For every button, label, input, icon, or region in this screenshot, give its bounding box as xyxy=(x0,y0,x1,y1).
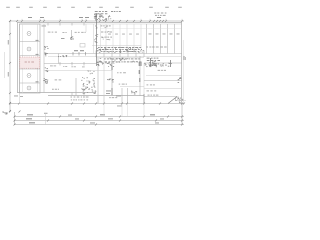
short line y100 right xyxy=(177,100,186,102)
dark cluster x96-104 y60 xyxy=(97,61,104,66)
speckled area (stairs) xyxy=(81,77,96,94)
right wing label 2 xyxy=(147,90,157,93)
line y70 x96-112 xyxy=(96,70,112,72)
chain connector x45 xyxy=(45,113,47,125)
dark wall x96 central xyxy=(96,13,98,66)
inner vertical left of column xyxy=(22,24,24,93)
chain ticks xyxy=(14,116,16,118)
extension x19 bottom xyxy=(19,93,21,104)
cluster right-mid dark xyxy=(144,61,156,66)
room label A xyxy=(48,31,57,34)
wall x58 corridor xyxy=(58,54,60,64)
cluster mid dark xyxy=(105,63,114,67)
right room labels row xyxy=(146,46,167,49)
corridor bottom wall left xyxy=(44,63,96,65)
left room column outline xyxy=(20,24,41,93)
far-left extension line xyxy=(4,52,6,78)
top dimension numbers row xyxy=(6,6,10,9)
left bottom ticks xyxy=(9,111,11,113)
extension dashes above chain xyxy=(21,19,23,21)
corridor top wall xyxy=(44,53,182,55)
interior line y86 right xyxy=(120,86,144,88)
bottom-right dark cluster xyxy=(175,97,184,104)
cell divider 3 xyxy=(20,68,41,70)
small mark 1 xyxy=(61,37,65,40)
bottom texts mid xyxy=(109,96,117,99)
wall x127 xyxy=(127,88,129,104)
text under y63 line 2 xyxy=(63,65,67,68)
faint outer right line xyxy=(182,40,184,104)
right wing boundary x144 xyxy=(143,63,145,97)
wall x76 xyxy=(75,78,77,96)
small mark 2 xyxy=(71,38,74,41)
dark segment x112 low xyxy=(111,88,113,95)
right wing wall y80 xyxy=(144,80,182,82)
dark marks x110 y80 xyxy=(107,79,114,83)
annotation cluster top-middle xyxy=(95,11,108,14)
secondary dim numbers above chain xyxy=(28,16,32,19)
central annotation band row2 xyxy=(101,50,139,53)
door swing bottom right xyxy=(168,97,177,104)
dark segment x144 low xyxy=(143,94,145,103)
text under y63 line xyxy=(50,65,56,68)
outer wall bottom-middle segment xyxy=(48,95,144,97)
faint line y28 xyxy=(100,28,181,30)
small fixture box xyxy=(80,44,85,48)
wall x72 upper xyxy=(71,30,73,37)
wall x141 upper xyxy=(140,24,142,54)
wall x86 upper xyxy=(85,24,87,32)
label x117 y72 xyxy=(117,71,126,74)
dark end of wall x71 xyxy=(70,37,73,40)
bottom chain 1 xyxy=(14,116,184,118)
bottom texts right xyxy=(148,94,159,97)
corridor bottom wall mid xyxy=(96,57,144,59)
dark cluster x44-48 y68 xyxy=(45,68,49,73)
marks below corridor left xyxy=(58,55,67,57)
annotation cluster upper-middle xyxy=(100,26,112,38)
central speckles below corridor xyxy=(100,58,138,63)
text x116 y95 xyxy=(116,95,121,98)
wall x93 upper xyxy=(93,24,95,54)
central annotation band row1 xyxy=(98,47,142,50)
bottom dark blob mid xyxy=(131,91,137,95)
bottom chains left connector xyxy=(14,112,16,125)
wall x104 xyxy=(103,58,105,104)
faint interior line y70 xyxy=(44,70,96,72)
top dimension chain xyxy=(10,20,184,22)
wall x100 upper xyxy=(100,24,102,54)
small marks outside right wall xyxy=(183,56,186,60)
top-right rooms xyxy=(146,24,148,54)
small text x14 y95 xyxy=(14,95,18,98)
ticks on y63 line xyxy=(59,62,61,66)
dense cluster x93-104 xyxy=(94,14,105,21)
wall x98 xyxy=(97,58,99,104)
corridor bottom wall right xyxy=(144,62,182,64)
room label C xyxy=(55,79,62,82)
small cluster x90 y70 xyxy=(88,70,95,74)
ticks between bottom walls xyxy=(71,93,73,96)
marks x44 y52 xyxy=(44,53,48,57)
text inside pink room xyxy=(25,61,34,64)
label y70 right xyxy=(158,69,166,72)
wall x112 xyxy=(111,58,113,96)
faint line above corridor mid xyxy=(92,45,141,47)
ext x98 xyxy=(97,96,99,104)
dark streak x170 xyxy=(170,60,172,67)
door jamb dashes xyxy=(74,49,78,52)
room label D xyxy=(52,88,59,91)
right wing line y88 xyxy=(144,88,182,90)
cell divider 4 xyxy=(20,82,41,84)
ticks on top wall mid xyxy=(47,23,49,26)
wall x113 upper xyxy=(112,24,114,54)
left dimension line xyxy=(9,21,11,112)
corridor crossing ticks xyxy=(95,51,97,58)
bottom texts mid-left xyxy=(71,97,89,101)
outer wall left xyxy=(17,23,19,94)
ext x104 xyxy=(103,96,105,104)
dark segment x112 xyxy=(111,66,113,70)
right wing label xyxy=(147,84,155,87)
wall x127 upper xyxy=(126,24,128,54)
right wing faint line y75 xyxy=(146,75,182,77)
bottom chain 2 xyxy=(14,120,184,122)
highlighted room (pink) xyxy=(20,57,40,68)
outer wall top xyxy=(17,22,182,24)
chain extension verticals xyxy=(103,104,105,116)
symbol chain along x95 xyxy=(94,26,98,43)
central speckles xyxy=(97,47,145,53)
outer wall bottom-right segment xyxy=(144,96,177,98)
outer wall right xyxy=(181,23,183,105)
bottom dim chain y103 xyxy=(10,103,184,105)
door posts xyxy=(72,52,74,56)
text right of column top xyxy=(42,25,47,28)
corridor second line xyxy=(48,56,182,58)
right annotations xyxy=(147,58,160,61)
inner vertical of column xyxy=(37,24,39,93)
cell circles xyxy=(27,32,31,36)
dark segments on x140 xyxy=(138,62,140,66)
bottom chain 3 xyxy=(14,124,184,126)
annotations below corridor xyxy=(104,59,141,63)
wall x44 xyxy=(43,24,45,93)
marks below chain xyxy=(117,105,122,108)
dense row y62-67 right xyxy=(145,63,172,67)
wall x106 upper xyxy=(105,24,107,54)
right end vertical of chains xyxy=(181,104,183,125)
numbers between bottom chains xyxy=(27,113,33,116)
text under y63 line 3 xyxy=(71,65,76,68)
top right small text xyxy=(154,13,166,16)
room label B xyxy=(75,31,86,34)
dark streak x150 xyxy=(150,58,152,66)
cell divider 2 xyxy=(20,55,41,57)
room label E xyxy=(119,83,127,86)
text under y63 line 4 xyxy=(82,66,85,69)
left dim numbers (vertical) xyxy=(7,40,10,45)
cell divider 1 xyxy=(20,41,41,43)
marks near right wall door xyxy=(178,77,182,83)
wall x120 upper xyxy=(119,24,121,54)
wall x122 xyxy=(121,88,123,104)
labels in upper-middle rooms xyxy=(108,33,111,36)
room label A2 xyxy=(62,31,66,34)
outer wall bottom-left segment xyxy=(18,92,97,94)
bottom-left small marks xyxy=(2,112,7,115)
marks x44 y45 xyxy=(44,46,49,49)
dark cluster x44 y80 xyxy=(43,78,48,84)
wall x140 xyxy=(139,56,141,96)
wall x134 upper xyxy=(133,24,135,54)
text x106 y90 xyxy=(106,90,111,93)
